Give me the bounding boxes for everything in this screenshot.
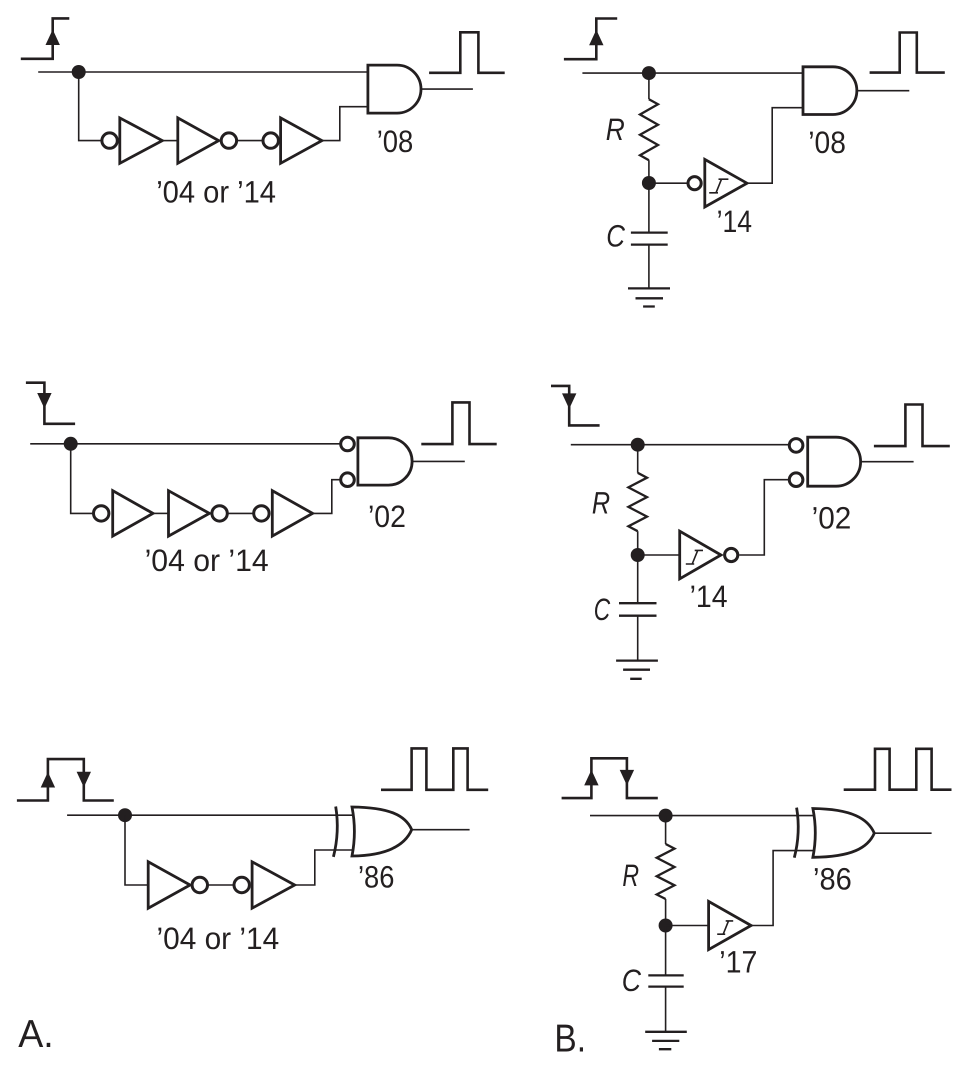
- falling-edge arrowhead (A2): [37, 393, 51, 409]
- NOR gate U6 bottom input bubble (A2): [341, 473, 355, 487]
- wire: junction down to inverter chain (A1): [79, 72, 101, 141]
- svg-text:R: R: [622, 858, 639, 893]
- node: input junction dot (B2): [631, 438, 645, 452]
- svg-text:’02: ’02: [812, 501, 852, 536]
- wire: input net to XOR gate U10 top input (A3): [67, 814, 352, 816]
- inverter U9b input bubble (A3): [234, 877, 249, 892]
- svg-text:’14: ’14: [717, 204, 752, 239]
- rising-edge arrowhead (A3): [41, 772, 55, 788]
- hysteresis symbol inside U7 (B2): [686, 550, 703, 564]
- wire: junction down to resistor R (B1): [648, 73, 650, 99]
- XOR gate U12 input side arc (B3): [794, 808, 798, 858]
- wire: resistor to RC node (B3): [665, 899, 667, 926]
- AND gate U4 '08 body (B1): [803, 67, 857, 115]
- inverter U1c triangle ('04 or '14): [281, 118, 322, 163]
- svg-text:’04 or ’14: ’04 or ’14: [156, 175, 276, 210]
- capacitor C plates (B2): [619, 603, 657, 616]
- inverter U9a output bubble (A3): [192, 877, 207, 892]
- wire: input net to AND gate U2 top input (A1): [38, 71, 368, 73]
- wire: junction down to resistor R (B2): [637, 445, 639, 473]
- svg-text:’14: ’14: [690, 579, 728, 614]
- output pulse waveform (B1): [870, 33, 945, 73]
- ground symbol (B1): [628, 288, 670, 306]
- resistor R (B3): [657, 844, 675, 899]
- ground symbol (B2): [616, 661, 658, 679]
- wire: U9a bubble to U9b bubble (A3): [208, 884, 233, 886]
- wire: U5c output up to NOR gate U6 lower input bubble (A2): [313, 480, 340, 514]
- wire: input net to XOR gate U12 top input (B3): [590, 815, 813, 817]
- wire: RC node down to capacitor C (B1): [648, 183, 650, 233]
- inverter U5b triangle ('04 or '14): [169, 491, 210, 536]
- output pulse waveform (A1): [429, 32, 505, 73]
- node: input junction dot (A1): [72, 65, 86, 79]
- falling-edge input waveform symbol (circuit B2): [551, 386, 600, 426]
- wire: U5b bubble to U5c bubble (A2): [228, 512, 253, 514]
- Schmitt inverter U7 output bubble (B2): [725, 548, 738, 561]
- AND gate U2 '08 body (A1): [368, 65, 421, 113]
- falling-edge arrowhead (B2): [562, 393, 576, 409]
- output double pulse waveform (B3): [844, 749, 952, 790]
- wire: AND gate U2 output (A1): [421, 88, 473, 90]
- inverter U1a triangle ('04 or '14): [120, 118, 163, 163]
- XOR gate U10 '86 body (A3): [352, 807, 412, 856]
- capacitor C plates (B1): [631, 233, 668, 245]
- node: input junction dot (A2): [64, 437, 78, 451]
- svg-text:C: C: [594, 592, 611, 627]
- svg-text:’86: ’86: [358, 860, 394, 895]
- wire: U1a output to U1b input: [162, 140, 178, 142]
- wire: U7 output up to NOR gate U8 lower input bubble (B2): [739, 480, 788, 555]
- inverter U1c input bubble: [263, 133, 278, 148]
- svg-text:’08: ’08: [808, 125, 846, 160]
- svg-text:R: R: [592, 486, 610, 521]
- output pulse waveform (B2): [874, 405, 950, 447]
- svg-text:’04 or ’14: ’04 or ’14: [157, 921, 280, 956]
- resistor R (B1): [640, 99, 658, 160]
- node: RC junction dot (B2): [631, 548, 645, 562]
- rising-edge arrowhead (B1): [589, 30, 603, 46]
- double-edge input waveform symbol (circuit A3): [17, 759, 114, 800]
- wire: capacitor to ground (B3): [665, 987, 667, 1032]
- output pulse waveform (A2): [421, 402, 496, 444]
- NOR gate U6 top input bubble (A2): [341, 437, 355, 451]
- wire: RC node down to capacitor C (B3): [665, 926, 667, 976]
- wire: U1c output up to AND gate U2 lower input: [322, 107, 368, 141]
- wire: input net to NOR gate U6 top input bubble (A2): [30, 443, 339, 445]
- rising-edge arrowhead (A1): [46, 30, 60, 46]
- svg-text:B.: B.: [554, 1017, 586, 1060]
- capacitor C plates (B3): [648, 975, 683, 986]
- svg-text:C: C: [622, 963, 642, 998]
- inverter U9b triangle ('04 or '14) (A3): [252, 862, 295, 908]
- NOR gate U8 '02 body (B2): [808, 437, 861, 486]
- rising-edge arrowhead (B3): [584, 770, 598, 786]
- svg-text:A.: A.: [18, 1013, 54, 1056]
- output double pulse waveform (A3): [381, 748, 488, 789]
- NOR gate U8 top input bubble (B2): [789, 439, 803, 453]
- wire: NOR gate U8 output (B2): [861, 461, 914, 463]
- wire: input net to AND gate U4 top input (B1): [582, 72, 803, 74]
- wire: junction down to inverter chain (A2): [71, 444, 93, 514]
- wire: capacitor to ground (B1): [648, 245, 650, 289]
- inverter U1a input bubble (A1): [102, 133, 117, 148]
- wire: junction down to resistor R (B3): [665, 816, 667, 844]
- inverter U1b triangle ('04 or '14): [178, 118, 219, 163]
- wire: resistor to RC node (B1): [648, 160, 650, 183]
- falling-edge input waveform symbol (circuit A2): [26, 383, 75, 424]
- Schmitt buffer U11 triangle '17 (B3): [709, 901, 752, 949]
- inverter U5a triangle ('04 or '14): [113, 491, 153, 536]
- wire: U9b output up to XOR gate U10 lower input (A3): [295, 850, 353, 885]
- falling-edge arrowhead (B3): [620, 770, 634, 786]
- ground symbol (B3): [645, 1032, 687, 1049]
- wire: junction down to buffer chain (A3): [125, 815, 148, 885]
- node: input junction dot (B3): [659, 809, 673, 823]
- svg-text:’86: ’86: [813, 861, 852, 896]
- wire: RC node to Schmitt inverter U3 input bubble (B1): [649, 182, 687, 184]
- inverter U5a input bubble (A2): [94, 506, 109, 521]
- hysteresis symbol inside U3 (B1): [709, 179, 728, 193]
- NOR gate U8 bottom input bubble (B2): [789, 473, 803, 487]
- inverter U5c input bubble (A2): [254, 506, 269, 521]
- wire: AND gate U4 output (B1): [857, 90, 909, 92]
- wire: U3 output up to AND gate U4 lower input (B1): [747, 108, 803, 184]
- wire: NOR gate U6 output (A2): [412, 460, 465, 462]
- wire: U11 output up to XOR gate U12 lower input (B3): [751, 851, 813, 926]
- XOR gate U12 '86 body (B3): [813, 809, 874, 858]
- wire: RC node to Schmitt buffer U11 input (B3): [666, 925, 709, 927]
- NOR gate U6 '02 body (A2): [358, 438, 412, 485]
- wire: RC node to Schmitt inverter U7 input (B2): [638, 554, 680, 556]
- wire: capacitor to ground (B2): [637, 616, 639, 661]
- svg-text:C: C: [606, 218, 625, 253]
- inverter U5c triangle ('04 or '14): [272, 491, 312, 536]
- inverter U1b output bubble: [221, 133, 236, 148]
- svg-text:’02: ’02: [368, 499, 406, 534]
- hysteresis symbol inside U11 (B3): [717, 921, 733, 934]
- Schmitt inverter U7 triangle '14 (B2): [680, 531, 721, 579]
- rising-edge input waveform symbol (circuit B1): [564, 19, 617, 60]
- falling-edge arrowhead (A3): [77, 772, 91, 788]
- wire: U5a output to U5b input (A2): [153, 512, 169, 514]
- svg-text:’08: ’08: [377, 124, 414, 159]
- wire: resistor to RC node (B2): [637, 531, 639, 555]
- node: input junction dot (A3): [118, 808, 132, 822]
- wire: XOR gate U12 output (B3): [874, 832, 931, 834]
- svg-text:’17: ’17: [719, 945, 757, 980]
- node: RC junction dot (B1): [642, 176, 656, 190]
- double-edge input waveform symbol (circuit B3): [562, 758, 658, 798]
- node: input junction dot (B1): [642, 66, 656, 80]
- wire: RC node down to capacitor C (B2): [637, 555, 639, 603]
- inverter U5b output bubble (A2): [212, 506, 227, 521]
- rising-edge input waveform symbol (circuit A1): [21, 18, 70, 58]
- Schmitt inverter U3 input bubble (B1): [688, 177, 701, 190]
- inverter U9a triangle ('04 or '14) (A3): [148, 862, 190, 908]
- wire: XOR gate U10 output (A3): [412, 829, 470, 831]
- resistor R (B2): [628, 473, 647, 531]
- node: RC junction dot (B3): [659, 919, 673, 933]
- svg-text:R: R: [606, 112, 625, 147]
- XOR gate U10 input side arc (A3): [333, 807, 337, 857]
- wire: U1b bubble to U1c bubble: [238, 140, 263, 142]
- Schmitt inverter U3 triangle '14 (B1): [705, 159, 747, 207]
- svg-text:’04 or ’14: ’04 or ’14: [145, 543, 269, 578]
- wire: input net to NOR gate U8 top input bubble (B2): [571, 444, 789, 446]
